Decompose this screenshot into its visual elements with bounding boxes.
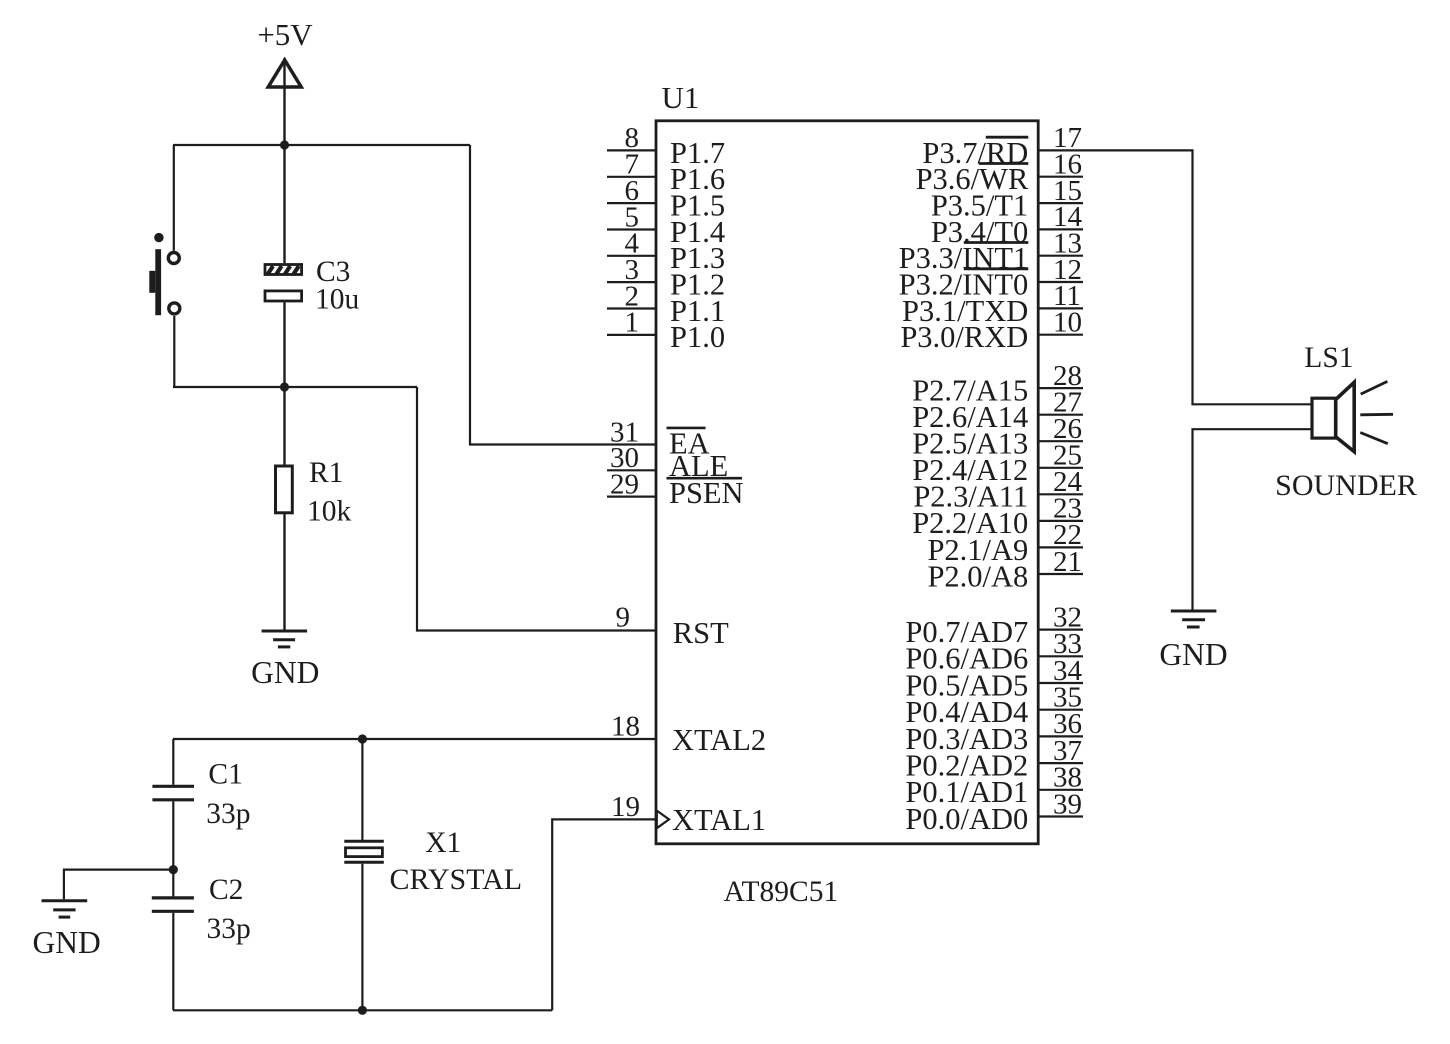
svg-text:CRYSTAL: CRYSTAL bbox=[390, 863, 523, 896]
svg-text:X1: X1 bbox=[425, 827, 461, 859]
svg-text:29: 29 bbox=[610, 468, 639, 500]
pin 15 P3.5/T1 bbox=[931, 175, 1083, 223]
pin 32 P0.7/AD7 bbox=[905, 601, 1083, 649]
svg-text:R1: R1 bbox=[309, 457, 343, 489]
pin 26 P2.5/A13 bbox=[912, 413, 1083, 461]
svg-text:GND: GND bbox=[32, 925, 100, 960]
pin 2 P1.1 bbox=[607, 280, 725, 328]
pin 38 P0.1/AD1 bbox=[905, 762, 1083, 810]
pin 17 P3.7/RD bbox=[922, 122, 1082, 170]
resistor R1 bbox=[276, 457, 352, 528]
svg-text:GND: GND bbox=[1159, 637, 1227, 672]
node junction reset bbox=[280, 382, 289, 391]
pin 39 P0.0/AD0 bbox=[905, 788, 1083, 836]
pin 30 ALE bbox=[607, 442, 728, 483]
pin 35 P0.4/AD4 bbox=[905, 682, 1083, 730]
wire C2 to bottom rail bbox=[172, 913, 174, 1010]
svg-text:PSEN: PSEN bbox=[669, 476, 744, 510]
wire P3.7 to speaker (top terminal) bbox=[1038, 150, 1312, 404]
node junction XTAL2/crystal bbox=[358, 734, 367, 743]
pin 21 P2.0/A8 bbox=[927, 546, 1083, 594]
wire crystal to bottom rail bbox=[361, 864, 363, 1011]
ground GND (speaker return) bbox=[1159, 611, 1227, 672]
pin 18 XTAL2 bbox=[611, 711, 766, 757]
svg-text:P0.0/AD0: P0.0/AD0 bbox=[905, 802, 1028, 836]
wire C3 to reset rail bbox=[283, 302, 285, 387]
capacitor C2 bbox=[152, 874, 251, 945]
pin 12 P3.2/INT0 bbox=[899, 254, 1083, 302]
svg-text:U1: U1 bbox=[662, 80, 700, 115]
wire pushbutton to reset rail bbox=[173, 316, 175, 387]
pin 7 P1.6 bbox=[607, 149, 725, 197]
pin 29 PSEN bbox=[607, 468, 744, 510]
svg-text:XTAL1: XTAL1 bbox=[672, 803, 766, 837]
svg-text:XTAL2: XTAL2 bbox=[672, 723, 766, 757]
wire reset rail to R1 bbox=[283, 387, 285, 465]
svg-text:C2: C2 bbox=[209, 874, 243, 906]
pin 22 P2.1/A9 bbox=[927, 519, 1083, 567]
pin 19 XTAL1 bbox=[611, 791, 766, 837]
svg-text:33p: 33p bbox=[207, 913, 251, 945]
wire node to C2 bbox=[172, 870, 174, 897]
capacitor C1 bbox=[152, 759, 250, 831]
svg-text:GND: GND bbox=[251, 655, 319, 690]
svg-text:C1: C1 bbox=[208, 759, 242, 791]
pin 8 P1.7 bbox=[607, 122, 725, 170]
op IC U1 AT89C51 body bbox=[656, 80, 1038, 908]
pin 3 P1.2 bbox=[607, 254, 725, 302]
svg-text:10k: 10k bbox=[307, 496, 352, 528]
svg-text:P1.0: P1.0 bbox=[670, 320, 725, 354]
power +5V bbox=[257, 17, 313, 145]
capacitor C3 (polarized) bbox=[265, 256, 360, 316]
crystal X1 bbox=[344, 827, 522, 896]
pin 14 P3.4/T0 bbox=[931, 201, 1083, 249]
svg-text:RST: RST bbox=[673, 616, 729, 650]
svg-text:33p: 33p bbox=[206, 798, 250, 830]
pin 4 P1.3 bbox=[607, 228, 725, 276]
pin 10 P3.0/RXD bbox=[900, 307, 1083, 355]
ground GND (left of C2) bbox=[32, 901, 100, 960]
wire speaker bottom terminal to ground bbox=[1193, 429, 1313, 610]
svg-text:P3.0/RXD: P3.0/RXD bbox=[900, 320, 1028, 354]
wire reset node rail bbox=[173, 386, 417, 388]
wire reset rail to RST pin bbox=[417, 387, 656, 631]
pin 6 P1.5 bbox=[607, 175, 725, 223]
pin 37 P0.2/AD2 bbox=[905, 735, 1083, 783]
svg-text:+5V: +5V bbox=[257, 17, 313, 52]
pin 24 P2.3/A11 bbox=[913, 466, 1083, 514]
pin 31 EA bbox=[470, 416, 710, 460]
node junction at +5V rail bbox=[280, 140, 289, 149]
wire bottom rail bbox=[173, 1009, 552, 1011]
svg-text:LS1: LS1 bbox=[1304, 342, 1353, 374]
pin 27 P2.6/A14 bbox=[912, 387, 1083, 435]
wire bottom rail to XTAL1 pin bbox=[552, 819, 656, 1010]
wire +5V rail bbox=[173, 144, 470, 146]
wire XTAL2 rail bbox=[173, 738, 656, 740]
pushbutton switch bbox=[149, 233, 180, 315]
svg-text:10: 10 bbox=[1053, 307, 1082, 339]
pin 13 P3.3/INT1 bbox=[899, 228, 1083, 276]
pin 28 P2.7/A15 bbox=[912, 360, 1083, 408]
svg-text:39: 39 bbox=[1053, 788, 1082, 820]
svg-text:18: 18 bbox=[611, 711, 640, 743]
svg-text:19: 19 bbox=[611, 791, 640, 823]
pin 1 P1.0 bbox=[607, 307, 725, 355]
pin 33 P0.6/AD6 bbox=[905, 628, 1083, 676]
node junction C1/C2/GND bbox=[169, 865, 178, 874]
node junction bottom rail bbox=[358, 1006, 367, 1015]
pin 34 P0.5/AD5 bbox=[905, 655, 1083, 703]
pin 16 P3.6/WR bbox=[916, 149, 1083, 197]
pin 11 P3.1/TXD bbox=[902, 280, 1083, 328]
wire rail to crystal bbox=[361, 739, 363, 840]
ground GND (below R1) bbox=[251, 631, 319, 690]
wire +5V to C3 bbox=[283, 145, 285, 263]
wire to pushbutton bbox=[173, 145, 175, 251]
wire node to left ground bbox=[64, 870, 173, 900]
pin 23 P2.2/A10 bbox=[912, 493, 1083, 541]
wire rail to C1 bbox=[172, 739, 174, 785]
svg-text:AT89C51: AT89C51 bbox=[724, 876, 839, 908]
pin 9 RST bbox=[616, 602, 730, 650]
pin 5 P1.4 bbox=[607, 201, 725, 249]
svg-text:P2.0/A8: P2.0/A8 bbox=[927, 559, 1028, 593]
wire C1 to C2 node bbox=[172, 801, 174, 869]
wire R1 to ground bbox=[283, 513, 285, 631]
pin 25 P2.4/A12 bbox=[912, 440, 1083, 488]
svg-text:10u: 10u bbox=[315, 284, 360, 316]
svg-text:9: 9 bbox=[616, 602, 631, 634]
svg-text:21: 21 bbox=[1053, 546, 1082, 578]
speaker LS1 SOUNDER bbox=[1275, 342, 1417, 502]
svg-text:1: 1 bbox=[625, 307, 640, 339]
svg-text:SOUNDER: SOUNDER bbox=[1275, 469, 1417, 502]
wire +5V rail to EA pin bbox=[470, 145, 656, 445]
pin 36 P0.3/AD3 bbox=[905, 708, 1083, 756]
